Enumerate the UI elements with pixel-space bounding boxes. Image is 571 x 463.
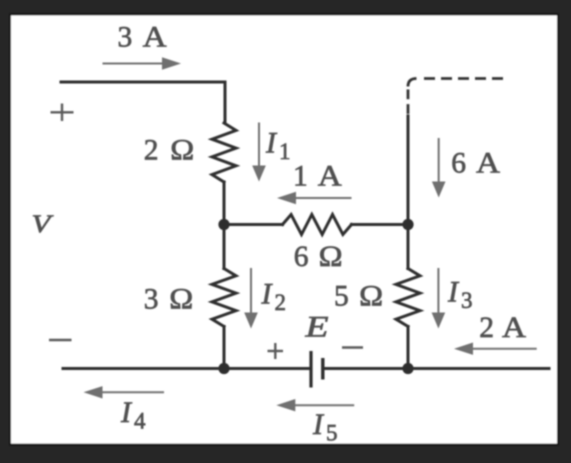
arrow 1 A current left — [277, 192, 352, 204]
wire node A down to 3-ohm resistor — [223, 225, 226, 269]
minus sign of battery E — [342, 346, 363, 348]
wire middle horizontal right segment — [352, 223, 409, 226]
wire bottom right segment from battery negative plate to right edge — [325, 367, 550, 370]
arrow I2 current down — [244, 268, 258, 329]
dashed wire vertical dash 2 — [407, 104, 410, 114]
wire top horizontal with corner down to 2-ohm resistor — [61, 82, 225, 123]
arrow 3 A current right — [103, 57, 182, 69]
node B junction dot — [402, 219, 413, 230]
resistor R 3 ohm — [212, 269, 236, 327]
battery E negative plate — [321, 358, 324, 380]
arrow I5 current left — [276, 399, 354, 411]
battery E positive plate — [309, 351, 312, 388]
arrow 6 A current down — [432, 138, 446, 198]
minus sign of source voltage V — [49, 339, 72, 341]
svg-text:1A: 1A — [293, 161, 343, 193]
dashed wire horizontal dashes — [424, 77, 503, 80]
wire 5-ohm resistor down to bottom node D — [407, 327, 410, 369]
svg-text:6Ω: 6Ω — [294, 241, 343, 273]
wire from 2-ohm resistor down to node A — [223, 182, 226, 225]
resistor R 5 ohm — [396, 269, 420, 327]
dashed wire vertical dash 1 — [407, 89, 410, 99]
wire right vertical solid from dashed lead down to node B — [407, 116, 410, 225]
wire bottom left segment to battery positive plate — [63, 367, 309, 370]
node C junction dot — [218, 363, 229, 374]
svg-text:5Ω: 5Ω — [334, 281, 383, 313]
node A junction dot — [218, 219, 229, 230]
wire node B down to 5-ohm resistor — [407, 225, 410, 269]
plus sign of battery E — [268, 343, 284, 359]
resistor R 2 ohm — [212, 123, 236, 182]
arrow 2 A current left — [454, 343, 537, 355]
dashed wire top right corner piece — [408, 79, 417, 87]
svg-text:E: E — [304, 311, 328, 344]
node D junction dot — [402, 363, 413, 374]
svg-text:6A: 6A — [451, 148, 500, 180]
wire middle horizontal left segment — [224, 223, 283, 226]
svg-text:3A: 3A — [118, 22, 168, 54]
resistor R 6 ohm — [283, 215, 352, 235]
svg-text:2A: 2A — [479, 312, 527, 344]
svg-text:3Ω: 3Ω — [144, 284, 194, 316]
arrow I4 current left — [84, 386, 165, 398]
arrow I1 current down — [252, 123, 266, 182]
plus sign of source voltage V — [51, 104, 74, 122]
arrow I3 current down — [432, 268, 446, 329]
wire 3-ohm resistor down to bottom node C — [223, 327, 226, 369]
